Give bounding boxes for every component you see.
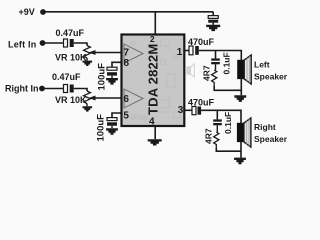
ground left speaker [234, 95, 246, 102]
svg-text:0.1uF: 0.1uF [222, 52, 232, 74]
ground C3 [106, 78, 118, 85]
svg-text:+9V: +9V [19, 7, 35, 17]
label +9V [19, 7, 35, 17]
wire +9V rail [45, 11, 213, 13]
svg-text:Left: Left [254, 60, 270, 70]
svg-text:7: 7 [124, 47, 130, 58]
op-amp U1 internal amplifier B [124, 89, 143, 108]
pin 5 label [123, 110, 129, 121]
wire right speaker to ground [240, 142, 242, 158]
capacitor C5 470uF [189, 46, 199, 55]
label Right Speaker [254, 122, 288, 144]
wire VR2 wiper to pin 6 [95, 97, 122, 99]
wire pin 5 to C4 [112, 113, 122, 118]
wire R2 to speaker ground [216, 148, 241, 151]
capacitor C7 0.1uF [211, 58, 220, 70]
svg-text:4R7: 4R7 [203, 128, 213, 144]
svg-text:1: 1 [177, 47, 183, 58]
svg-text:3: 3 [178, 105, 184, 116]
svg-text:0.47uF: 0.47uF [56, 28, 85, 38]
wire right input to C2 [45, 88, 64, 90]
label Left Speaker [254, 60, 288, 82]
pin 3 label [178, 105, 184, 116]
svg-text:100uF: 100uF [97, 63, 108, 91]
node +9V supply terminal [40, 9, 46, 15]
speaker left [237, 55, 251, 84]
label R2 4R7 [203, 128, 213, 144]
label C4 100uF [96, 114, 107, 142]
potentiometer VR2 10K [84, 91, 96, 103]
wire VR1 wiper to pin 7 [95, 52, 122, 54]
resistor R1 4R7 [212, 70, 217, 86]
svg-text:Right: Right [254, 122, 276, 132]
ground supply bypass [206, 25, 220, 31]
svg-text:2: 2 [150, 34, 155, 44]
svg-text:0.47uF: 0.47uF [52, 72, 81, 82]
pin 4 label [149, 117, 155, 128]
label C2 0.47uF [52, 72, 81, 82]
wire supply rail to pin 2 [154, 12, 156, 35]
svg-text:VR 10K: VR 10K [55, 95, 87, 105]
label C1 0.47uF [56, 28, 85, 38]
pin 7 label [124, 47, 130, 58]
capacitor C1 0.47uF [64, 39, 74, 47]
capacitor C4 100uF [107, 118, 117, 129]
wire zobel junction left [215, 51, 217, 59]
svg-text:Speaker: Speaker [254, 72, 288, 82]
svg-text:6: 6 [123, 94, 129, 105]
svg-text:Right In: Right In [5, 84, 39, 94]
wire pin 8 to C3 [112, 62, 122, 67]
label C8 0.1uF [223, 112, 233, 134]
svg-text:5: 5 [123, 110, 129, 121]
label C6 470uF [188, 98, 215, 108]
wire pin 3 stub [184, 109, 192, 111]
op-amp U1 TDA 2822M body [122, 35, 185, 127]
wire C1 to VR1 [74, 43, 87, 46]
capacitor supply bypass [208, 12, 218, 25]
potentiometer VR1 10K [84, 46, 96, 58]
label C3 100uF [97, 63, 108, 91]
wire zobel junction right [216, 110, 218, 119]
node right input terminal [39, 86, 45, 92]
capacitor C8 0.1uF [213, 119, 222, 132]
capacitor C2 0.47uF [64, 85, 74, 93]
svg-text:8: 8 [124, 58, 130, 69]
wire C6 to right speaker [201, 110, 241, 123]
label VR1 VR 10K [55, 53, 87, 63]
faint watermark speaker icon [187, 64, 194, 77]
svg-text:4R7: 4R7 [201, 65, 211, 81]
svg-text:470uF: 470uF [188, 98, 215, 108]
resistor R2 4R7 [214, 132, 219, 148]
speaker right [237, 118, 251, 147]
svg-text:Left In: Left In [8, 40, 36, 50]
ground VR2 [83, 104, 93, 112]
wire C5 to left speaker [199, 51, 242, 61]
svg-text:470uF: 470uF [188, 37, 215, 47]
label C5 470uF [188, 37, 215, 47]
wire R1 to speaker ground [214, 86, 241, 90]
svg-text:VR 10K: VR 10K [55, 53, 87, 63]
svg-text:TDA 2822M: TDA 2822M [146, 44, 161, 115]
ground VR1 [83, 58, 93, 66]
label U1 TDA 2822M [146, 44, 161, 115]
label Left In [8, 40, 36, 50]
pin 1 label [177, 47, 183, 58]
capacitor C6 470uF [192, 107, 201, 115]
wire pin 1 stub [184, 50, 190, 52]
ground right speaker [234, 158, 246, 165]
svg-text:100uF: 100uF [96, 114, 107, 142]
label Right In [5, 84, 39, 94]
svg-text:0.1uF: 0.1uF [223, 112, 233, 134]
faint internal circuitry watermark [131, 39, 180, 122]
node left input terminal [40, 40, 46, 46]
label R1 4R7 [201, 65, 211, 81]
pin 2 label [150, 34, 155, 44]
wire left speaker to ground [240, 79, 242, 95]
capacitor C3 100uF [107, 67, 117, 78]
ground pin 4 [148, 139, 162, 145]
label C7 0.1uF [222, 52, 232, 74]
wire left input to C1 [45, 42, 64, 44]
svg-text:4: 4 [149, 117, 155, 128]
pin 8 label [124, 58, 130, 69]
svg-text:Speaker: Speaker [254, 134, 288, 144]
wire pin 4 to ground [154, 126, 156, 139]
op-amp U1 internal amplifier A [124, 44, 143, 63]
pin 6 label [123, 94, 129, 105]
label VR2 VR 10K [55, 95, 87, 105]
ground C4 [106, 128, 118, 135]
wire C2 to VR2 [74, 89, 87, 92]
